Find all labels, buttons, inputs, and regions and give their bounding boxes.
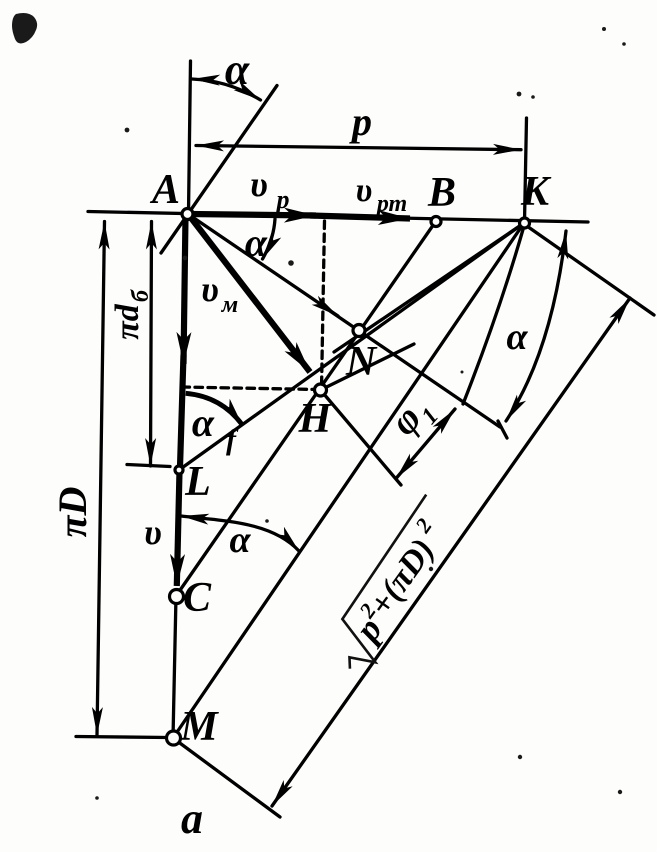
wire thick continuation to L [180, 355, 184, 467]
svg-text:K: K [520, 169, 552, 215]
arrow A toward N thin [188, 214, 338, 316]
svg-text:N: N [345, 339, 378, 385]
svg-text:а: а [181, 794, 203, 843]
svg-text:p: p [275, 185, 290, 214]
svg-text:πd: πd [109, 303, 146, 340]
vector v_p thick arrow [189, 214, 316, 216]
svg-text:υ: υ [201, 269, 219, 309]
angle arc alpha small below A [263, 219, 276, 259]
svg-text:рт: рт [375, 191, 407, 217]
wire dashed vertical to H [322, 221, 325, 389]
node A [182, 209, 193, 220]
svg-text:L: L [184, 459, 211, 505]
node K [520, 218, 530, 228]
svg-text:α: α [192, 400, 215, 445]
node M [167, 731, 181, 745]
wire tick at bottom of pi d_b [127, 465, 170, 467]
svg-text:α: α [225, 45, 250, 94]
svg-text:H: H [298, 396, 333, 442]
node C [170, 590, 184, 604]
wire slant stub from K down right [524, 224, 654, 315]
wire tick at M level [76, 737, 168, 738]
svg-text:м: м [221, 292, 238, 318]
dimension phi1 double arrow [396, 409, 455, 479]
scan speck top left blob [12, 13, 37, 43]
wire horizontal axis through A B K [88, 212, 588, 223]
wire stub from H up right [321, 344, 415, 390]
wire vertical axis top segment above A [189, 61, 191, 213]
label sqrt p2 piD2 rotated [318, 495, 472, 679]
label pi d_b rotated [109, 289, 154, 340]
wire slant stub from M down right [173, 738, 280, 817]
vector v_M thick arrow [188, 214, 310, 372]
svg-text:p: p [349, 99, 372, 144]
wire H to T line [321, 390, 402, 485]
wire end tick of A-N line [498, 421, 507, 438]
svg-text:B: B [427, 170, 456, 216]
svg-text:πD: πD [50, 487, 95, 538]
svg-text:б: б [128, 289, 154, 302]
svg-text:A: A [149, 167, 180, 213]
wire extension tick above K [525, 118, 527, 222]
angle arc alpha top [192, 79, 261, 100]
svg-text:C: C [183, 575, 212, 621]
dimension line sqrt(p^2+(piD)^2) [272, 298, 630, 806]
node N [353, 325, 365, 337]
wire helix line C through H N to B [176, 221, 436, 596]
wire helix line M to K [173, 223, 524, 738]
svg-text:υ: υ [250, 164, 268, 204]
wire curved line K to phi1 tip [463, 226, 524, 404]
label pi D rotated [50, 487, 95, 538]
wire K to L [179, 223, 524, 470]
vector v from L to C thick arrow [177, 471, 180, 586]
angle arc alpha below L [181, 516, 299, 551]
svg-text:φ: φ [381, 396, 430, 444]
wire helix direction line through A [161, 86, 277, 254]
vector A down thick with mid arrow [184, 216, 186, 364]
dimension pi d_b vertical with arrows [151, 222, 152, 467]
node B [431, 217, 441, 227]
scan specks [125, 128, 130, 133]
angle arc alpha right at K [506, 231, 566, 421]
vector v_pt thick arrow [310, 216, 410, 219]
svg-text:υ: υ [144, 512, 162, 552]
wire dashed horizontal to H [182, 387, 318, 390]
angle arc alpha_f heavy [186, 393, 242, 424]
svg-text:+(πD): +(πD) [362, 532, 442, 623]
svg-text:M: M [179, 704, 219, 750]
wire thin C to M [173, 596, 176, 738]
node L [175, 466, 183, 474]
svg-text:υ: υ [356, 172, 373, 209]
wire A-N line continued to end [330, 311, 500, 427]
svg-text:α: α [229, 519, 251, 561]
node H [315, 384, 327, 396]
svg-text:α: α [245, 220, 268, 265]
dimension p line with arrows [196, 146, 521, 150]
wire K to N extended [334, 223, 524, 352]
dimension pi D vertical with arrows [97, 222, 105, 736]
label phi1 rotated [381, 386, 444, 448]
svg-text:α: α [506, 316, 528, 358]
